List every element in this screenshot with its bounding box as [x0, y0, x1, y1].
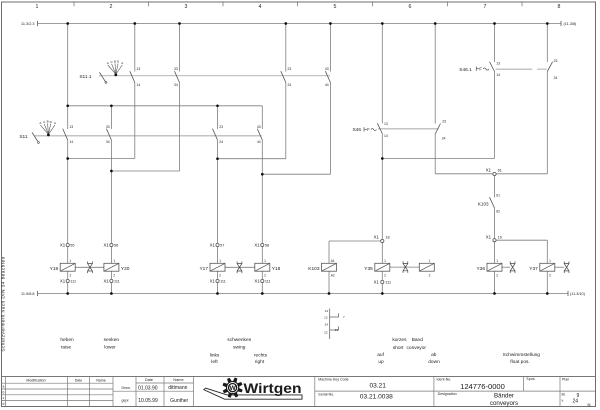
svg-text:Y36: Y36	[476, 266, 485, 272]
svg-text:Date: Date	[145, 378, 153, 382]
svg-text:X1: X1	[374, 235, 380, 240]
svg-text:conveyors: conveyors	[490, 400, 518, 407]
svg-text:S11.1: S11.1	[79, 74, 92, 80]
svg-text:Y37: Y37	[529, 266, 538, 272]
svg-text:S46: S46	[352, 127, 361, 133]
svg-text:right: right	[255, 359, 265, 365]
svg-text:55: 55	[70, 244, 74, 248]
svg-text:1: 1	[264, 259, 266, 263]
svg-text:56: 56	[114, 244, 118, 248]
svg-text:23: 23	[442, 120, 446, 124]
svg-text:1: 1	[113, 259, 115, 263]
svg-text:A1: A1	[331, 259, 335, 263]
svg-text:auf: auf	[377, 352, 384, 358]
svg-text:A: A	[39, 121, 41, 125]
svg-text:kurzes: kurzes	[392, 337, 407, 343]
svg-text:14: 14	[384, 134, 388, 138]
svg-text:Bl.: Bl.	[562, 393, 566, 397]
svg-text:23: 23	[219, 125, 223, 129]
svg-text:21: 21	[335, 328, 339, 332]
svg-text:43: 43	[325, 67, 329, 71]
svg-text:14: 14	[69, 140, 73, 144]
svg-text:2: 2	[549, 274, 551, 278]
svg-text:62: 62	[496, 210, 500, 214]
svg-text:111: 111	[385, 281, 391, 285]
svg-text:Schutzvermerk nach DIN 34 beac: Schutzvermerk nach DIN 34 beachten	[0, 256, 6, 351]
svg-text:Drwn.: Drwn.	[122, 386, 131, 390]
svg-text:Wirtgen: Wirtgen	[244, 380, 302, 396]
svg-text:A: A	[121, 61, 123, 65]
svg-text:24: 24	[288, 83, 292, 87]
svg-text:1: 1	[496, 259, 498, 263]
svg-text:3: 3	[185, 4, 188, 10]
svg-text:13: 13	[496, 61, 500, 65]
svg-text:2: 2	[113, 274, 115, 278]
svg-text:14: 14	[137, 83, 141, 87]
svg-text:Y35: Y35	[364, 266, 373, 272]
svg-text:links: links	[210, 352, 220, 358]
svg-text:Y18: Y18	[272, 266, 281, 272]
svg-text:Band: Band	[412, 337, 424, 343]
svg-text:2: 2	[70, 274, 72, 278]
svg-text:A2: A2	[331, 274, 335, 278]
svg-text:d: d	[3, 402, 5, 406]
svg-text:11.3/2.3: 11.3/2.3	[21, 22, 34, 26]
svg-text:58: 58	[265, 244, 269, 248]
svg-text:24: 24	[573, 399, 579, 405]
svg-text:61: 61	[496, 194, 500, 198]
svg-text:03.21: 03.21	[369, 383, 386, 390]
svg-text:7: 7	[484, 4, 487, 10]
svg-text:13: 13	[137, 67, 141, 71]
svg-text:(11.3/8): (11.3/8)	[564, 22, 578, 26]
svg-text:22: 22	[324, 331, 328, 335]
svg-text:34: 34	[106, 140, 110, 144]
svg-text:111: 111	[70, 280, 76, 284]
svg-text:11.9/8.8: 11.9/8.8	[21, 292, 34, 296]
svg-text:F: F	[479, 67, 482, 72]
svg-text:heben: heben	[60, 337, 74, 343]
svg-text:senken: senken	[104, 337, 120, 343]
svg-text:S11: S11	[19, 134, 28, 140]
svg-text:13: 13	[69, 125, 73, 129]
svg-text:10.05.99: 10.05.99	[138, 398, 158, 404]
svg-text:44: 44	[325, 83, 329, 87]
svg-text:A: A	[107, 61, 109, 65]
svg-text:2: 2	[384, 274, 386, 278]
svg-text:float pos.: float pos.	[510, 359, 529, 365]
svg-text:2: 2	[219, 274, 221, 278]
svg-text:24: 24	[554, 76, 558, 80]
svg-text:2: 2	[110, 4, 113, 10]
svg-text:Serial-No.: Serial-No.	[318, 392, 334, 396]
svg-text:61: 61	[498, 168, 502, 172]
svg-text:19: 19	[498, 235, 502, 239]
svg-text:X1: X1	[254, 279, 260, 284]
svg-text:43: 43	[257, 125, 261, 129]
svg-text:01.03.90: 01.03.90	[138, 385, 158, 391]
svg-text:14: 14	[496, 73, 500, 77]
svg-text:a: a	[3, 385, 5, 389]
svg-text:B: B	[47, 120, 49, 124]
svg-text:18: 18	[385, 236, 389, 240]
svg-text:33: 33	[106, 125, 110, 129]
svg-text:Name: Name	[96, 379, 106, 383]
svg-text:14: 14	[325, 309, 329, 313]
svg-text:2: 2	[429, 274, 431, 278]
svg-text:111: 111	[114, 280, 120, 284]
svg-text:S46.1: S46.1	[459, 67, 472, 73]
svg-text:rechts: rechts	[254, 352, 268, 358]
svg-text:X1: X1	[104, 279, 110, 284]
svg-text:23: 23	[288, 67, 292, 71]
svg-text:Bänder: Bänder	[494, 393, 514, 400]
svg-text:12: 12	[324, 316, 328, 320]
svg-text:X1: X1	[60, 279, 66, 284]
svg-text:Y19: Y19	[50, 266, 59, 272]
svg-text:1: 1	[219, 259, 221, 263]
svg-text:left: left	[211, 359, 218, 365]
svg-text:B: B	[114, 59, 116, 63]
svg-text:Name: Name	[173, 378, 183, 382]
svg-text:K103: K103	[478, 202, 489, 207]
svg-text:1: 1	[70, 259, 72, 263]
svg-text:24: 24	[442, 137, 446, 141]
svg-text:Designation: Designation	[438, 392, 457, 396]
svg-text:X1: X1	[486, 234, 492, 239]
svg-text:34: 34	[174, 83, 178, 87]
svg-text:Plan: Plan	[562, 377, 569, 381]
svg-text:Modification: Modification	[26, 379, 45, 383]
svg-text:v.: v.	[562, 399, 564, 403]
svg-text:X1: X1	[210, 279, 216, 284]
svg-text:X1: X1	[374, 280, 380, 285]
svg-text:Gunther: Gunther	[170, 398, 188, 404]
svg-text:Ident-No.: Ident-No.	[437, 377, 452, 381]
svg-text:schwenken: schwenken	[227, 337, 251, 343]
svg-text:X1: X1	[254, 243, 260, 248]
svg-text:6: 6	[409, 4, 412, 10]
svg-text:X1: X1	[104, 243, 110, 248]
svg-text:Date: Date	[75, 379, 83, 383]
svg-text:33: 33	[174, 67, 178, 71]
svg-text:X1: X1	[210, 243, 216, 248]
svg-text:A: A	[54, 121, 56, 125]
svg-text:K103: K103	[308, 266, 320, 272]
svg-text:X1: X1	[486, 167, 492, 172]
svg-text:1: 1	[384, 259, 386, 263]
svg-text:lower: lower	[104, 345, 116, 351]
svg-text:23: 23	[554, 59, 558, 63]
svg-text:111: 111	[220, 280, 226, 284]
svg-text:dittmann: dittmann	[168, 385, 187, 391]
svg-text:X1: X1	[60, 243, 66, 248]
svg-text:2: 2	[264, 274, 266, 278]
svg-text:c: c	[3, 396, 5, 400]
svg-text:8: 8	[558, 4, 561, 10]
svg-text:F: F	[367, 127, 370, 132]
svg-text:conveyor: conveyor	[407, 345, 427, 351]
svg-text:swing: swing	[233, 345, 246, 351]
svg-text:Y20: Y20	[121, 266, 130, 272]
svg-text:W: W	[229, 385, 236, 392]
svg-text:Schwimmstellung: Schwimmstellung	[503, 352, 541, 358]
svg-text:13: 13	[384, 122, 388, 126]
svg-text:111: 111	[265, 280, 271, 284]
svg-text:short: short	[393, 345, 404, 351]
svg-text:1: 1	[549, 259, 551, 263]
svg-text:Y17: Y17	[199, 266, 208, 272]
svg-text:gepr.: gepr.	[122, 398, 130, 402]
svg-text:1: 1	[429, 259, 431, 263]
svg-text:24: 24	[325, 323, 329, 327]
svg-text:Spos.: Spos.	[526, 377, 535, 381]
svg-text:b: b	[3, 390, 5, 394]
svg-text:(11.3/10): (11.3/10)	[570, 292, 586, 296]
svg-text:24: 24	[219, 140, 223, 144]
svg-text:ab: ab	[431, 352, 437, 358]
svg-text:2: 2	[496, 274, 498, 278]
svg-text:Machine Key Code: Machine Key Code	[318, 377, 348, 381]
svg-text:44: 44	[257, 140, 261, 144]
svg-text:down: down	[428, 359, 440, 365]
svg-text:Bl.: Bl.	[588, 403, 592, 407]
svg-text:5: 5	[334, 4, 337, 10]
svg-text:up: up	[378, 360, 384, 365]
svg-text:03.21.0038: 03.21.0038	[360, 393, 393, 400]
svg-text:57: 57	[220, 244, 224, 248]
svg-text:1: 1	[36, 4, 39, 10]
svg-text:124776-0000: 124776-0000	[460, 382, 505, 391]
svg-text:raise: raise	[61, 345, 72, 351]
svg-text:4: 4	[259, 4, 262, 10]
